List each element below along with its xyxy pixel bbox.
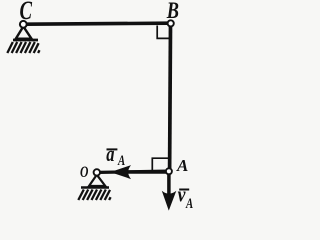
label B — [166, 0, 179, 23]
acceleration arrow aA (left) — [112, 166, 167, 178]
right-angle square at A — [152, 158, 168, 170]
label vA — [178, 183, 194, 212]
support at O: hatching — [78, 190, 110, 201]
support at C: triangle — [16, 27, 32, 39]
pin circle at C — [20, 21, 27, 28]
support at C: ground line — [13, 39, 38, 42]
label O — [80, 163, 88, 180]
support at O: ground line — [81, 186, 109, 189]
support at O: triangle — [89, 175, 105, 186]
svg-text:A: A — [176, 156, 188, 175]
pin circle at A — [166, 168, 172, 174]
svg-text:B: B — [166, 0, 179, 23]
svg-text:O: O — [80, 163, 88, 180]
wire bar CB — [26, 23, 168, 24]
velocity arrow vA (down) — [163, 174, 176, 210]
svg-text:v: v — [178, 183, 187, 207]
label aA — [106, 143, 125, 169]
wire bar OA — [99, 171, 167, 172]
svg-text:a: a — [106, 143, 114, 167]
label C — [20, 0, 33, 25]
svg-text:A: A — [117, 151, 125, 168]
pin circle at O — [94, 169, 100, 175]
pin circle at B — [168, 20, 174, 26]
svg-text:C: C — [20, 0, 33, 25]
svg-text:A: A — [185, 194, 193, 211]
support at C: hatching — [7, 42, 39, 53]
wire bar BA — [168, 25, 173, 170]
right-angle square at B — [157, 26, 169, 39]
